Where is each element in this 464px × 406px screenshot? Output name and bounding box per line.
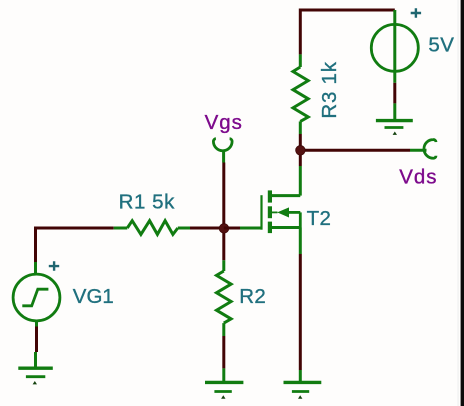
svg-text:Vds: Vds bbox=[399, 166, 437, 189]
svg-text:5V: 5V bbox=[428, 34, 454, 57]
svg-text:T2: T2 bbox=[307, 207, 332, 230]
svg-text:R1 5k: R1 5k bbox=[119, 190, 176, 213]
svg-text:R3 1k: R3 1k bbox=[318, 61, 341, 118]
svg-text:Vgs: Vgs bbox=[205, 111, 243, 134]
svg-text:VG1: VG1 bbox=[73, 285, 114, 308]
svg-text:R2: R2 bbox=[239, 285, 266, 308]
